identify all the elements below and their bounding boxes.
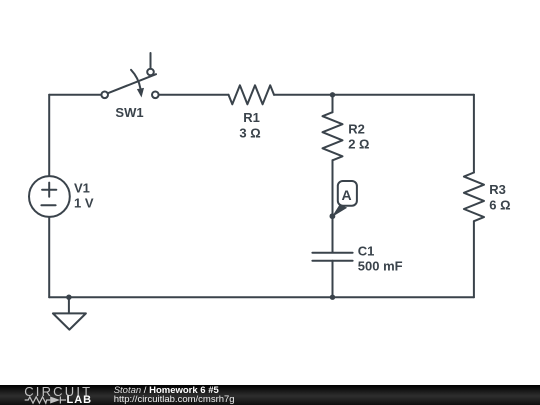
wire SW1 to R1 <box>159 94 229 96</box>
capacitor C1 <box>312 253 352 297</box>
wire right rail lower <box>473 221 475 297</box>
resistor R1 <box>229 85 275 104</box>
label V1 value <box>74 181 94 211</box>
label R3 value <box>489 182 510 212</box>
label R2 value <box>348 122 369 152</box>
svg-text:2 Ω: 2 Ω <box>348 137 369 152</box>
svg-text:6 Ω: 6 Ω <box>489 197 510 212</box>
wire R1 to top-right corner <box>274 94 474 96</box>
ground <box>53 297 86 329</box>
label C1 value <box>358 244 403 274</box>
CircuitLab logo <box>0 385 110 405</box>
wire R2 to C1 <box>332 160 334 252</box>
svg-text:R2: R2 <box>348 122 365 137</box>
svg-text:A: A <box>341 187 351 203</box>
voltage source V1 <box>29 176 70 217</box>
resistor R2 <box>323 112 343 160</box>
wire bottom rail <box>49 296 474 298</box>
node junction ground tap <box>66 295 71 300</box>
svg-text:500 mF: 500 mF <box>358 258 403 273</box>
svg-text:R1: R1 <box>243 110 260 125</box>
footer bar <box>0 385 540 405</box>
wire left rail lower <box>48 217 50 297</box>
svg-text:LAB: LAB <box>67 394 93 405</box>
resistor R3 <box>464 173 484 222</box>
svg-text:3 Ω: 3 Ω <box>239 126 260 141</box>
wire right rail upper <box>473 95 475 173</box>
wire left rail upper <box>48 95 50 176</box>
svg-text:V1: V1 <box>74 181 90 196</box>
footer title text <box>114 386 219 396</box>
svg-text:1 V: 1 V <box>74 196 94 211</box>
ammeter probe A <box>330 181 357 219</box>
wire junction to R2 <box>332 95 334 112</box>
switch SW1 <box>101 53 158 98</box>
node junction bottom (C1 to bottom rail) <box>330 295 335 300</box>
node junction top (R2 tap) <box>330 92 335 97</box>
svg-text:R3: R3 <box>489 182 506 197</box>
svg-text:SW1: SW1 <box>115 105 143 120</box>
footer url text <box>114 394 235 405</box>
label R1 value <box>239 110 260 140</box>
wire top rail left segment <box>49 94 101 96</box>
svg-text:C1: C1 <box>358 244 375 259</box>
